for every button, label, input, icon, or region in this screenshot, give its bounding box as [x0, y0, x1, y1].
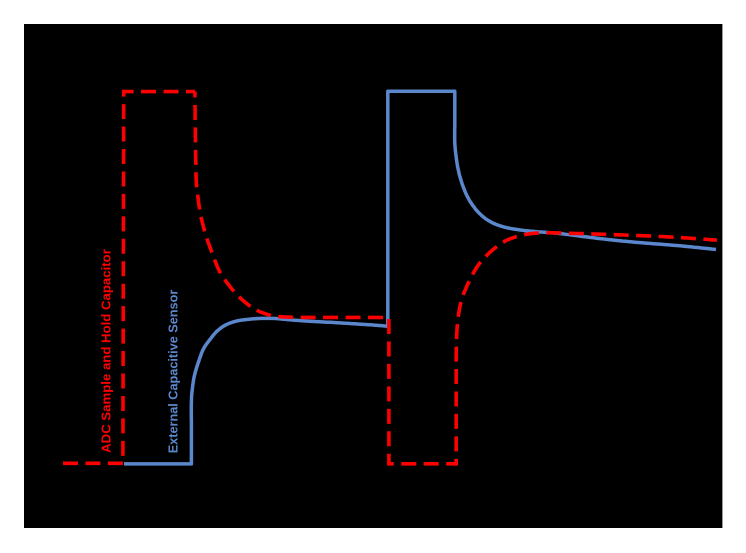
- red dashed trace: ADC Sample and Hold Capacitor: [63, 92, 717, 464]
- svg-text:External Capacitive Sensor: External Capacitive Sensor: [167, 290, 181, 454]
- blue solid trace: External Capacitive Sensor: [124, 91, 716, 464]
- svg-text:ADC Sample and Hold Capacitor: ADC Sample and Hold Capacitor: [99, 249, 114, 453]
